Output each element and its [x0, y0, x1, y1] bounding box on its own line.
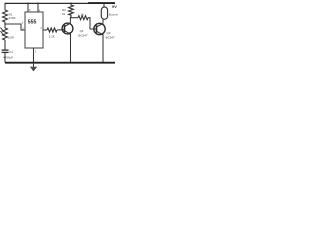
wire 555 pin 1 to ground rail	[34, 48, 37, 63]
resistor 1K horizontal	[78, 12, 88, 19]
node 9V label	[112, 4, 117, 9]
svg-text:BC547: BC547	[106, 35, 116, 39]
wire node to 1K resistor	[71, 17, 78, 19]
svg-text:Q1: Q1	[80, 29, 84, 33]
wire R1 to LDR	[4, 22, 6, 28]
op-amp U1 555 timer box	[25, 12, 43, 48]
wire LDR to capacitor	[4, 40, 6, 50]
transistor Q2	[94, 23, 115, 39]
wire Q1 emitter to ground rail	[70, 34, 72, 62]
wire 1K to Q2 base	[88, 18, 97, 29]
LDR	[0, 28, 14, 40]
ground	[30, 63, 37, 72]
wire Q2 emitter to ground rail	[102, 35, 104, 63]
node Q2 emitter junction	[102, 62, 104, 64]
resistor R1	[3, 10, 16, 22]
svg-text:555: 555	[28, 20, 37, 26]
svg-text:BC547: BC547	[78, 33, 88, 37]
wire left branch from rail to R1	[4, 3, 6, 10]
svg-text:1k: 1k	[62, 12, 66, 16]
svg-text:9V: 9V	[112, 4, 117, 9]
wire Q1 collector up to node	[69, 18, 71, 24]
node Q1 emitter junction	[70, 62, 72, 64]
svg-text:470K: 470K	[9, 16, 16, 20]
capacitor C1	[2, 50, 14, 60]
wire resistor to Q1 base	[57, 29, 65, 31]
node pin 2 label	[22, 26, 24, 30]
resistor R2 1k vertical	[62, 3, 73, 18]
svg-text:Q2: Q2	[106, 31, 110, 35]
wire ground rail	[5, 62, 115, 64]
transistor Q1	[62, 23, 88, 37]
svg-text:C1: C1	[9, 50, 13, 54]
buzzer BZ1	[101, 3, 118, 20]
wire junction to 555 pin 2	[5, 24, 25, 30]
wire 555 pin 3 output stub	[40, 26, 47, 30]
wire Q2 collector to buzzer	[102, 20, 104, 24]
wire top +9V rail	[5, 2, 115, 4]
wire 555 pin 4 to rail	[37, 3, 41, 13]
node junction R1/LDR	[4, 23, 6, 25]
svg-text:1K: 1K	[80, 12, 84, 16]
wire capacitor to ground rail	[4, 53, 6, 63]
svg-text:2,2K: 2,2K	[49, 34, 55, 38]
wire 555 pin 8 to rail	[27, 3, 31, 13]
node ground junction	[33, 62, 35, 64]
svg-text:Buzzer: Buzzer	[109, 13, 118, 17]
svg-text:LDR: LDR	[8, 36, 15, 40]
node Q1 collector / R2 / 1K junction	[70, 17, 72, 19]
resistor 2,2K	[47, 28, 57, 38]
node pin 6 label	[22, 21, 24, 25]
